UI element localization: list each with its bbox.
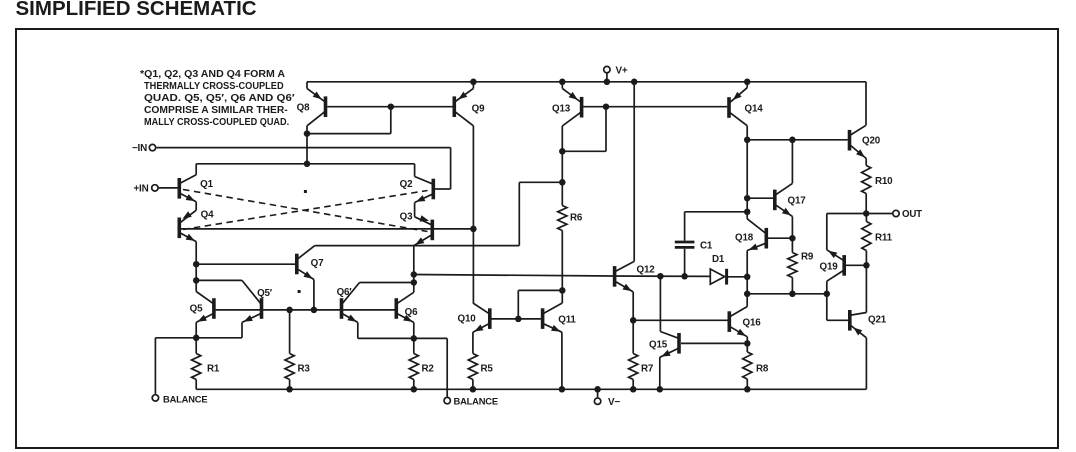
wire Q9 collector down to Q10 bbox=[470, 126, 477, 303]
power terminal V- bbox=[594, 389, 620, 408]
svg-text:Q7: Q7 bbox=[311, 258, 324, 269]
wire Q13 base-collector loop bbox=[562, 107, 606, 152]
svg-text:Q5: Q5 bbox=[190, 304, 203, 315]
transistor Q3 bbox=[400, 212, 433, 246]
wire C1 to Q18 collector node bbox=[685, 211, 748, 213]
transistor Q6 bbox=[396, 292, 418, 322]
resistor R5 bbox=[468, 354, 493, 390]
svg-text:R3: R3 bbox=[298, 364, 311, 375]
transistor Q17 bbox=[775, 183, 806, 216]
svg-text:Q3: Q3 bbox=[400, 212, 413, 223]
wire Q21 base bbox=[827, 294, 848, 321]
wire Q5/Q5' emitter bus to BALANCE bbox=[155, 322, 242, 394]
svg-text:C1: C1 bbox=[700, 241, 713, 252]
wire Q21 collector up to R11 node bbox=[865, 265, 867, 312]
transistor Q14 bbox=[729, 88, 763, 126]
wire Q4 emitter down to Q5 collectors bbox=[193, 242, 200, 292]
svg-text:Q13: Q13 bbox=[552, 104, 571, 115]
wire to Q19 collector / Q21 base node bbox=[747, 291, 830, 298]
svg-text:D1: D1 bbox=[712, 254, 725, 265]
balance terminal right bbox=[444, 396, 498, 407]
wire -IN to Q2 base bbox=[157, 148, 451, 189]
transistor Q10 bbox=[458, 303, 490, 332]
wire Q14 collector down (Q17 base, Q18 collector) bbox=[744, 126, 751, 215]
input terminal -IN bbox=[132, 143, 156, 154]
svg-text:Q9: Q9 bbox=[472, 103, 485, 114]
svg-text:BALANCE: BALANCE bbox=[454, 396, 498, 407]
wire R6 to Q11 collector bbox=[559, 231, 566, 304]
svg-text:Q6′: Q6′ bbox=[337, 287, 353, 298]
wire Q1/Q2 collector rail bbox=[196, 161, 414, 177]
svg-text:Q21: Q21 bbox=[868, 315, 887, 326]
wire Q1 emitter to Q4 collector bbox=[195, 202, 197, 210]
transistor Q5' bbox=[242, 280, 273, 322]
wire Q2 emitter to Q3 collector bbox=[414, 203, 416, 217]
wire Q11 emitter to V- rail bbox=[561, 332, 563, 389]
wire Q13/Q14 base bus bbox=[583, 103, 727, 110]
transistor Q9 bbox=[454, 88, 485, 125]
svg-text:Q12: Q12 bbox=[637, 265, 656, 276]
svg-text:+IN: +IN bbox=[133, 183, 148, 194]
balance terminal left bbox=[152, 393, 207, 404]
wire Q3 emitter / Q7 collector node bbox=[315, 182, 563, 245]
svg-text:R1: R1 bbox=[207, 364, 220, 375]
wire Q8 emitter to V+ rail bbox=[306, 82, 308, 89]
resistor R10 bbox=[862, 159, 894, 214]
wire Q19 base to R11 bbox=[846, 264, 866, 266]
thermal quad marker dot upper bbox=[304, 190, 307, 193]
wire Q5' collector bbox=[196, 279, 242, 281]
svg-text:Q5′: Q5′ bbox=[257, 288, 273, 299]
transistor Q18 bbox=[735, 219, 766, 251]
wire Q15 emitter down to V- rail bbox=[659, 357, 661, 389]
transistor Q6' bbox=[337, 283, 360, 323]
svg-text:V+: V+ bbox=[616, 65, 628, 76]
junction dots on V+ rail bbox=[470, 79, 750, 86]
svg-text:Q4: Q4 bbox=[201, 210, 214, 221]
resistor R7 bbox=[629, 354, 654, 390]
transistor Q19 bbox=[820, 250, 845, 281]
wire Q7 emitter to base bus bbox=[313, 280, 315, 310]
wire Q9 emitter to V+ rail bbox=[472, 82, 474, 89]
transistor Q13 bbox=[552, 88, 582, 126]
transistor Q20 bbox=[850, 125, 881, 158]
wire V- rail bbox=[196, 386, 866, 393]
transistor Q21 bbox=[850, 310, 887, 338]
resistor R6 bbox=[558, 206, 583, 231]
wire Q15 collector up to D1 anode net bbox=[659, 276, 661, 331]
wire Q13 collector down through R6 bbox=[559, 126, 566, 206]
thermal coupling dashed cross bbox=[183, 190, 428, 232]
svg-text:Q10: Q10 bbox=[458, 314, 477, 325]
wire Q15 base to Q16 emitter bbox=[681, 340, 751, 347]
wire Q8 collector down to input rail bbox=[306, 134, 308, 164]
wire Q17 emitter to Q18 base and R9 bbox=[789, 216, 796, 241]
svg-text:R7: R7 bbox=[641, 364, 654, 375]
wire Q17 collector up to Q20 base bbox=[791, 140, 793, 184]
wire Q16 emitter through R8 bbox=[746, 337, 748, 352]
wire Q19 collector down bbox=[826, 281, 828, 294]
svg-text:R8: R8 bbox=[756, 364, 769, 375]
wire Q18 base bbox=[768, 237, 792, 239]
wire Q10 emitter through R5 bbox=[472, 332, 474, 353]
resistor R9 bbox=[788, 238, 814, 297]
svg-text:Q14: Q14 bbox=[745, 104, 764, 115]
wire second stage input net (Q12 base, C1, D1 anode) bbox=[414, 273, 711, 280]
transistor Q4 bbox=[179, 210, 214, 242]
svg-text:BALANCE: BALANCE bbox=[163, 393, 207, 404]
wire x=414 vertical Q3emitter node down bbox=[411, 246, 418, 293]
transistor Q12 bbox=[615, 261, 656, 292]
svg-text:−IN: −IN bbox=[132, 143, 147, 154]
svg-text:R10: R10 bbox=[875, 176, 893, 187]
wire Q14 emitter to V+ rail bbox=[746, 82, 748, 88]
svg-text:Q11: Q11 bbox=[558, 315, 576, 326]
wire Q18 emitter / Q16 collector vertical bbox=[744, 251, 751, 307]
transistor Q11 bbox=[543, 303, 577, 332]
wire Q8/Q9 base bus bbox=[327, 103, 452, 110]
svg-text:Q2: Q2 bbox=[400, 179, 413, 190]
wire Q17 base bbox=[747, 197, 773, 199]
wire Q5-Q6 base bus bbox=[216, 307, 395, 314]
wire Q6'/Q6 emitter bus to BALANCE bbox=[358, 322, 447, 396]
wire V+ rail bbox=[307, 82, 866, 126]
transistor Q16 bbox=[729, 307, 761, 337]
wire OUT node bbox=[827, 210, 892, 250]
wire Q21 emitter down to V- rail bbox=[865, 338, 867, 390]
transistor Q5 bbox=[190, 292, 214, 323]
wire Q18 collector vertical bbox=[746, 212, 748, 219]
transistor Q2 bbox=[400, 177, 434, 203]
input terminal +IN bbox=[133, 183, 158, 194]
svg-text:OUT: OUT bbox=[902, 209, 922, 220]
svg-text:R6: R6 bbox=[570, 213, 583, 224]
svg-text:Q8: Q8 bbox=[297, 103, 310, 114]
wire Q3/Q4 base bus bbox=[181, 228, 473, 230]
output terminal OUT bbox=[893, 209, 922, 220]
svg-text:Q16: Q16 bbox=[743, 318, 762, 329]
wire Q10/Q11 base bus and tap to R6 node bbox=[492, 290, 563, 322]
wire Q12 collector to V+ rail bbox=[633, 82, 635, 262]
svg-text:R2: R2 bbox=[422, 364, 435, 375]
resistor R8 bbox=[743, 352, 769, 389]
transistor Q15 bbox=[649, 332, 679, 358]
svg-text:R9: R9 bbox=[801, 252, 814, 263]
thermal quad marker dot lower bbox=[298, 290, 301, 293]
diode D1 bbox=[710, 254, 726, 285]
wire D1 cathode to Q16 collector node bbox=[727, 276, 748, 278]
svg-text:Q1: Q1 bbox=[200, 179, 213, 190]
capacitor C1 bbox=[675, 212, 713, 276]
transistor Q8 bbox=[297, 88, 326, 125]
svg-text:Q17: Q17 bbox=[788, 196, 807, 207]
wire +IN to Q1 base bbox=[159, 187, 178, 189]
resistor R1 bbox=[192, 338, 220, 390]
resistor R3 bbox=[285, 310, 310, 389]
svg-text:Q20: Q20 bbox=[862, 136, 881, 147]
resistor R2 bbox=[409, 338, 434, 389]
wire Q13 emitter to V+ rail bbox=[561, 82, 563, 89]
wire Q12 emitter node to Q16 base and R7 bbox=[630, 292, 728, 354]
transistor Q1 bbox=[179, 175, 213, 202]
wire Q8 collector-base loop bbox=[304, 107, 391, 137]
wire Q7 base bbox=[196, 263, 295, 265]
svg-text:Q19: Q19 bbox=[820, 262, 839, 273]
wire Q20 base bbox=[747, 137, 848, 144]
svg-text:V−: V− bbox=[608, 397, 620, 408]
power terminal V+ bbox=[604, 65, 628, 85]
svg-text:R11: R11 bbox=[875, 233, 893, 244]
note text about thermally cross-coupled quads bbox=[140, 69, 285, 80]
resistor R11 bbox=[862, 214, 893, 269]
svg-text:Q6: Q6 bbox=[405, 307, 418, 318]
svg-text:Q15: Q15 bbox=[649, 340, 668, 351]
transistor Q7 bbox=[297, 246, 324, 280]
svg-text:Q18: Q18 bbox=[735, 233, 754, 244]
wire Q6' collector bbox=[360, 282, 414, 284]
svg-text:R5: R5 bbox=[481, 364, 494, 375]
